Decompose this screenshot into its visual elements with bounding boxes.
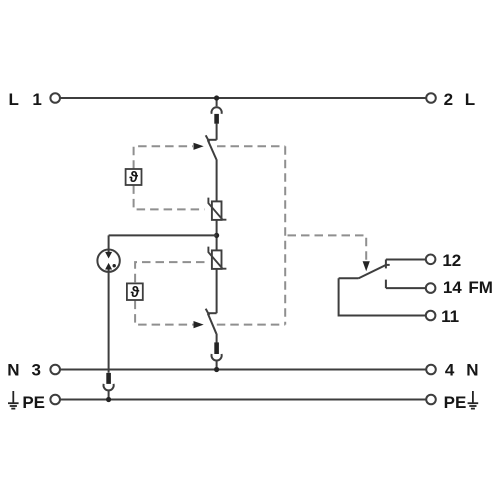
svg-text:PE: PE [444,393,467,412]
svg-text:ϑ: ϑ [131,284,140,301]
svg-text:L: L [465,90,475,109]
svg-text:FM: FM [468,278,493,297]
svg-text:12: 12 [442,251,461,270]
svg-text:L: L [9,90,19,109]
svg-text:N: N [7,360,19,379]
svg-text:11: 11 [441,307,459,326]
svg-text:1: 1 [32,90,41,109]
svg-text:PE: PE [22,393,45,412]
svg-text:3: 3 [31,360,40,379]
svg-text:ϑ: ϑ [129,169,138,186]
svg-text:4: 4 [445,360,455,379]
svg-text:N: N [466,360,478,379]
svg-text:14: 14 [443,278,462,297]
svg-text:2: 2 [444,90,453,109]
